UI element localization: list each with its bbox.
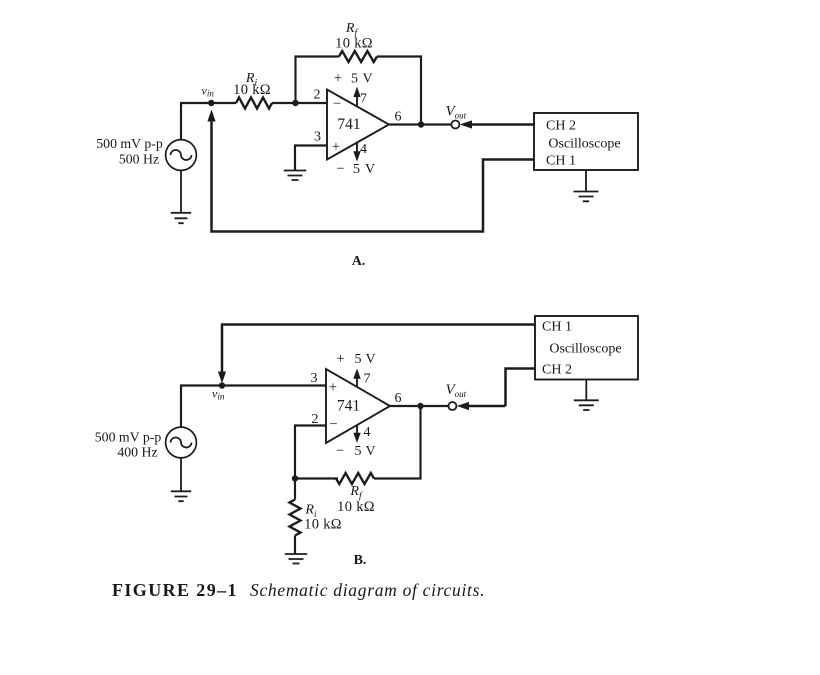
svg-text:4: 4 — [360, 142, 367, 157]
svg-text:7: 7 — [364, 372, 371, 387]
svg-text:741: 741 — [337, 398, 360, 415]
svg-text:7: 7 — [360, 92, 367, 107]
svg-text:5: 5 — [355, 444, 362, 459]
svg-text:+: + — [329, 380, 337, 396]
svg-text:FIGURE 29–1: FIGURE 29–1 — [112, 580, 238, 600]
svg-text:10 kΩ: 10 kΩ — [233, 82, 271, 98]
svg-text:2: 2 — [312, 412, 319, 427]
svg-text:−: − — [336, 161, 344, 177]
svg-text:Schematic diagram of circuits.: Schematic diagram of circuits. — [250, 580, 485, 600]
svg-text:vin: vin — [202, 84, 215, 99]
svg-text:vin: vin — [212, 387, 225, 402]
svg-text:V: V — [365, 352, 375, 367]
svg-text:6: 6 — [395, 391, 402, 406]
svg-text:V: V — [365, 162, 375, 177]
svg-text:V: V — [365, 444, 375, 459]
svg-text:Vout: Vout — [446, 382, 467, 399]
svg-text:Oscilloscope: Oscilloscope — [549, 342, 621, 357]
svg-text:2: 2 — [314, 88, 321, 103]
svg-text:V: V — [362, 72, 372, 87]
svg-text:400 Hz: 400 Hz — [117, 445, 157, 460]
svg-text:5: 5 — [353, 162, 360, 177]
svg-text:10 kΩ: 10 kΩ — [337, 499, 375, 515]
svg-text:10 kΩ: 10 kΩ — [304, 517, 342, 533]
svg-text:10 kΩ: 10 kΩ — [335, 36, 373, 52]
svg-text:CH 2: CH 2 — [542, 363, 572, 378]
svg-text:4: 4 — [364, 425, 371, 440]
svg-text:5: 5 — [355, 352, 362, 367]
svg-text:500 mV p-p: 500 mV p-p — [95, 430, 162, 445]
svg-text:Vout: Vout — [446, 104, 467, 121]
svg-text:+: + — [336, 351, 344, 367]
svg-text:CH 1: CH 1 — [546, 154, 576, 169]
svg-text:+: + — [332, 139, 340, 155]
svg-text:−: − — [329, 417, 337, 433]
svg-text:3: 3 — [311, 371, 318, 386]
svg-text:3: 3 — [314, 130, 321, 145]
svg-text:−: − — [336, 443, 344, 459]
svg-text:CH 1: CH 1 — [542, 320, 572, 335]
svg-text:B.: B. — [354, 553, 367, 568]
svg-text:CH 2: CH 2 — [546, 118, 576, 133]
svg-text:+: + — [334, 71, 342, 87]
svg-text:6: 6 — [395, 110, 402, 125]
svg-text:741: 741 — [337, 116, 360, 133]
svg-text:A.: A. — [352, 254, 366, 269]
svg-text:−: − — [333, 96, 341, 112]
svg-text:500 Hz: 500 Hz — [119, 152, 159, 167]
svg-text:500 mV p-p: 500 mV p-p — [96, 136, 163, 151]
svg-text:5: 5 — [351, 72, 358, 87]
svg-text:Oscilloscope: Oscilloscope — [548, 137, 620, 152]
